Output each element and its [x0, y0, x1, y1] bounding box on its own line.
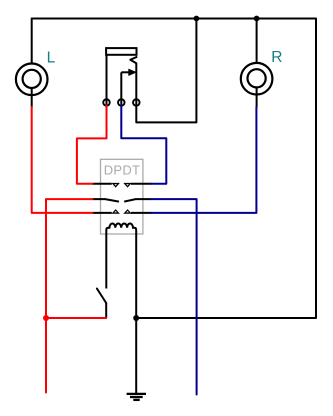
speaker R: [241, 63, 273, 108]
relay K1 NO contact row3 right: [123, 209, 132, 214]
wire: speaker L to relay row3 left (red): [32, 107, 93, 213]
headphone jack J1 pin 3 (tip): [133, 99, 140, 106]
wire: coil left leg to switch: [105, 234, 107, 289]
relay K1 NO contact row3 left: [111, 209, 120, 214]
relay K1 pin stub row3 left: [92, 212, 112, 214]
wire: speaker R top lead: [256, 19, 258, 64]
relay K1 pin stub row1 right: [131, 183, 152, 185]
svg-text:R: R: [271, 49, 282, 66]
relay K1 DPDT body: [101, 159, 143, 234]
relay K1 NC contact row1 left: [111, 183, 120, 188]
wire: jack tip to top rail: [136, 19, 196, 123]
headphone jack J1 switch arm: [121, 69, 137, 100]
wire: relay row2 left to battery red: [46, 199, 93, 392]
speaker L: [16, 64, 48, 108]
relay K1 coil: [106, 224, 136, 235]
relay K1 common arm right: [124, 199, 151, 202]
wire: jack sleeve to relay row1 left (red): [77, 105, 107, 183]
junction: top rail / speaker R: [254, 16, 260, 22]
relay K1 pin stub row3 right: [131, 212, 152, 214]
junction: top rail / jack tip: [194, 16, 200, 22]
ground: [127, 394, 146, 400]
wire: speaker L / top rail / right rail / ground return: [32, 19, 316, 319]
relay K1 common arm left: [92, 199, 119, 202]
switch S1: [97, 289, 106, 319]
label DPDT: [104, 163, 141, 178]
wire: jack ring switch to relay row1 right (blue): [121, 105, 166, 183]
wire: relay row2 right down (blue): [151, 199, 197, 394]
relay K1 NC contact row1 right: [123, 183, 132, 188]
wire: relay row3 right to speaker R (blue): [151, 107, 256, 213]
wire: coil right leg to ground node: [135, 234, 137, 393]
headphone jack J1 tip contact: [130, 57, 137, 100]
label R: [271, 49, 282, 66]
headphone jack J1 pin 2 (ring switch): [118, 99, 125, 106]
relay K1 pin stub row1 left: [92, 183, 112, 185]
headphone jack J1 pin 1 (sleeve): [103, 99, 110, 106]
junction: red tap: [43, 315, 49, 321]
svg-text:L: L: [47, 49, 56, 66]
junction: ground node: [133, 315, 139, 321]
svg-text:DPDT: DPDT: [104, 163, 141, 178]
label L: [47, 49, 56, 66]
headphone jack J1 sleeve: [106, 48, 136, 100]
wire: red tap to switch S1: [46, 317, 106, 319]
